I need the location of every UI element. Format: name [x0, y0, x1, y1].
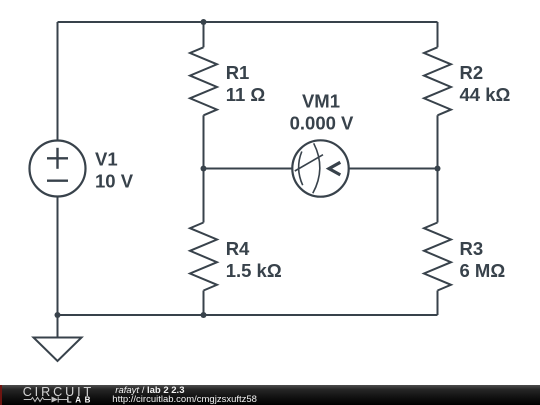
wire ground stub: [57, 315, 59, 338]
wire left vertical (V1 branch): [57, 22, 59, 141]
voltage source V1: [30, 141, 86, 197]
wire R3 top stub: [437, 169, 439, 223]
wire mid row left: [204, 168, 293, 170]
node C (R2/R3/VM junction): [435, 166, 441, 172]
ground: [34, 338, 82, 362]
wire R2 top stub: [437, 22, 439, 47]
svg-text:VM1: VM1: [302, 90, 340, 111]
voltmeter VM1: [292, 140, 348, 196]
svg-text:R2: R2: [460, 62, 484, 83]
svg-text:10 V: 10 V: [95, 171, 134, 192]
svg-text:1.5 kΩ: 1.5 kΩ: [226, 260, 282, 281]
resistor R3: [424, 223, 451, 291]
svg-text:6 MΩ: 6 MΩ: [460, 260, 506, 281]
svg-text:R4: R4: [226, 238, 250, 259]
svg-text:LAB: LAB: [67, 396, 94, 405]
resistor R2: [424, 47, 451, 115]
svg-text:V1: V1: [95, 149, 118, 170]
wire R3 bottom stub: [437, 291, 439, 316]
wire R1 top stub: [203, 22, 205, 47]
wire R2 bottom stub: [437, 115, 439, 168]
node B (R1/R4/VM junction): [201, 166, 207, 172]
svg-text:44 kΩ: 44 kΩ: [460, 84, 511, 105]
svg-text:R3: R3: [460, 238, 484, 259]
node A (R1 top): [201, 19, 207, 25]
wire R1 bottom stub: [203, 115, 205, 168]
svg-text:R1: R1: [226, 62, 250, 83]
wire R4 top stub: [203, 169, 205, 223]
wire R4 bottom stub: [203, 291, 205, 316]
node D (ground junction): [55, 312, 61, 318]
wire left vertical lower: [57, 197, 59, 316]
resistor R4: [190, 223, 217, 291]
wire top horizontal: [58, 21, 438, 23]
CircuitLab logo: [0, 385, 110, 405]
svg-text:11 Ω: 11 Ω: [226, 84, 266, 105]
node E (R4 bottom): [201, 312, 207, 318]
wire bottom horizontal: [58, 314, 438, 316]
svg-text:0.000 V: 0.000 V: [290, 112, 354, 133]
wire mid row right: [349, 168, 438, 170]
resistor R1: [190, 47, 217, 115]
